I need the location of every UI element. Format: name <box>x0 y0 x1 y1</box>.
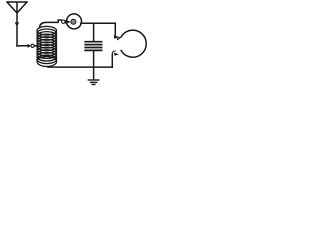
slider arrow contact <box>28 44 32 48</box>
earphone top terminal <box>114 35 119 39</box>
capacitor C1 bottom lead <box>93 51 95 67</box>
whisker arrow <box>65 20 71 24</box>
capacitor C1 plates <box>85 42 101 51</box>
antenna A1 <box>7 2 27 46</box>
whisker loop <box>62 20 65 23</box>
inductor coil L1 <box>37 26 57 66</box>
ground lead <box>93 67 95 80</box>
wire antenna to slider <box>17 45 28 47</box>
wire slider to coil L1 <box>34 45 37 47</box>
bottom rail wire <box>48 66 112 68</box>
wire top rail down to earphone <box>114 23 116 35</box>
slider loop <box>31 44 34 47</box>
earphone bottom terminal <box>114 53 119 56</box>
earphone P1 body <box>121 30 146 57</box>
wire coil top to detector <box>40 20 62 28</box>
crystal dot <box>71 19 76 24</box>
wire bottom rail up to earphone <box>111 54 113 67</box>
crystal detector D1 <box>67 14 82 29</box>
ground symbol <box>88 80 98 85</box>
earphone top terminal hook <box>117 37 120 40</box>
top rail wire <box>81 22 115 24</box>
capacitor C1 top lead <box>93 23 95 41</box>
earphone bottom terminal hook <box>112 51 115 54</box>
